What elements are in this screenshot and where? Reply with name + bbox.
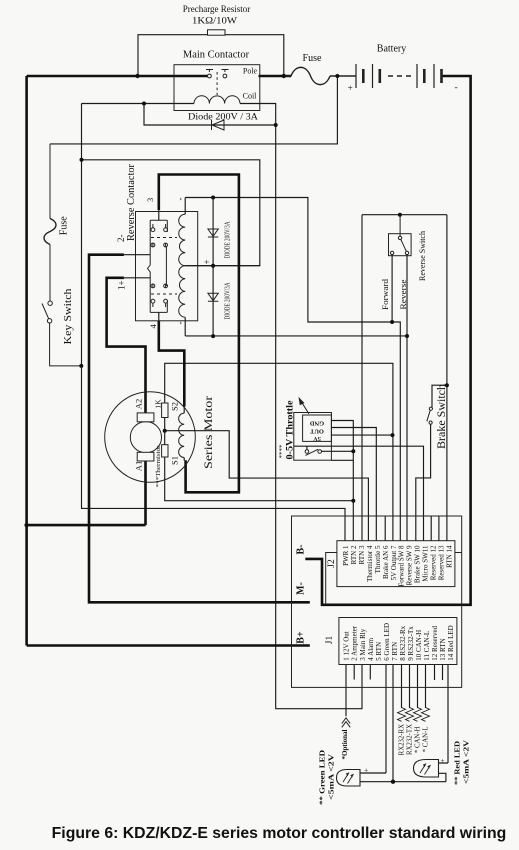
svg-text:OUT: OUT [309,427,324,434]
svg-text:8 RS232-Rx: 8 RS232-Rx [399,625,407,660]
svg-text:4 Alarm: 4 Alarm [367,637,375,660]
svg-text:14 Red LED: 14 Red LED [447,625,455,660]
svg-text:Figure 6: KDZ/KDZ-E series mot: Figure 6: KDZ/KDZ-E series motor control… [52,825,507,842]
svg-text:Main Contactor: Main Contactor [183,50,250,61]
svg-text:Thermistor 4: Thermistor 4 [366,545,374,582]
svg-text:12 Reserved: 12 Reserved [431,625,439,660]
svg-text:Brake AN 6: Brake AN 6 [382,545,390,579]
svg-text:RTN 14: RTN 14 [446,545,454,568]
svg-text:J1: J1 [325,636,335,645]
svg-text:GND: GND [310,419,325,426]
svg-text:*Optional: *Optional [341,729,349,759]
svg-text:RX232-RX: RX232-RX [399,724,406,755]
svg-text:9 RS232-Tx: 9 RS232-Tx [407,626,415,661]
svg-text:-: - [455,83,458,93]
svg-text:Fuse: Fuse [59,216,70,235]
svg-text:RTN 2: RTN 2 [350,545,358,564]
svg-text:7 RTN: 7 RTN [391,642,399,661]
svg-text:* CAN-H: * CAN-H [415,726,422,753]
svg-text:13 RTN: 13 RTN [439,638,447,660]
svg-text:5V Output 7: 5V Output 7 [390,545,398,580]
svg-text:+: + [202,259,212,264]
svg-text:3: 3 [145,198,155,202]
svg-text:3 Main Rly: 3 Main Rly [359,628,367,660]
svg-text:Diode 200V / 3A: Diode 200V / 3A [188,112,259,122]
svg-text:Key Switch: Key Switch [62,288,74,345]
svg-text:Reverse SW 9: Reverse SW 9 [406,545,414,585]
svg-text:Reserved 12: Reserved 12 [430,545,438,580]
svg-text:Pole: Pole [243,67,258,76]
svg-text:Reverse: Reverse [399,279,408,310]
svg-text:A1: A1 [134,461,144,471]
svg-text:+: + [348,84,353,94]
svg-text:****: **** [278,444,286,459]
svg-text:RX232-TX: RX232-TX [407,724,414,755]
svg-text:-: - [175,198,185,201]
svg-text:+: + [364,766,368,775]
svg-text:Coil: Coil [243,92,258,101]
svg-text:5V: 5V [313,435,321,442]
svg-text:11 CAN-L: 11 CAN-L [423,631,431,661]
svg-text:B+: B+ [296,631,307,644]
svg-text:5 RTN: 5 RTN [375,642,383,661]
svg-text:4: 4 [148,324,158,329]
svg-text:Reverse Switch: Reverse Switch [418,231,427,281]
svg-text:B-: B- [296,545,307,555]
svg-text:2-: 2- [116,235,126,243]
svg-text:PWR 1: PWR 1 [342,545,350,566]
svg-text:2 Ampmeter: 2 Ampmeter [351,625,359,660]
svg-text:Fuse: Fuse [303,53,322,64]
svg-text:Battery: Battery [377,44,406,55]
svg-text:Series Motor: Series Motor [201,396,215,469]
svg-text:<5mA <2V: <5mA <2V [327,753,336,800]
svg-text:6 Green LED: 6 Green LED [383,623,391,661]
svg-text:0-5V Throttle: 0-5V Throttle [285,401,295,460]
svg-text:***Thermistor: ***Thermistor [155,445,162,488]
svg-text:* CAN-L: * CAN-L [423,727,430,753]
svg-text:S2: S2 [169,402,179,411]
svg-text:Forward: Forward [381,279,390,310]
svg-text:J2: J2 [327,559,337,568]
svg-text:Reverse Contactor: Reverse Contactor [125,164,137,241]
svg-text:1KΩ/10W: 1KΩ/10W [192,16,238,26]
svg-text:** Red LED: ** Red LED [453,740,462,785]
svg-text:Micro SW11: Micro SW11 [422,545,430,582]
svg-text:S1: S1 [169,456,179,465]
svg-text:Precharge Resistor: Precharge Resistor [183,4,251,14]
svg-text:RTN 3: RTN 3 [358,545,366,564]
svg-text:<5mA <2V: <5mA <2V [462,739,471,784]
svg-text:1K: 1K [153,399,162,409]
svg-text:Brake SW 10: Brake SW 10 [414,545,422,583]
svg-text:Throttle 5: Throttle 5 [374,545,382,573]
svg-text:Reserved 13: Reserved 13 [438,545,446,580]
svg-text:Forward SW 8: Forward SW 8 [398,545,406,587]
svg-text:1+: 1+ [117,280,127,290]
svg-text:+: + [441,756,445,765]
svg-text:-: - [175,322,185,325]
svg-text:10 CAN-H: 10 CAN-H [415,630,423,661]
svg-text:DIODE 200V/3A: DIODE 200V/3A [225,282,232,319]
svg-text:DIODE 200V/3A: DIODE 200V/3A [225,221,232,258]
svg-text:A2: A2 [134,399,144,409]
svg-text:** Green LED: ** Green LED [318,749,327,805]
svg-text:M-: M- [296,582,307,595]
svg-text:Brake Switch: Brake Switch [436,384,448,449]
svg-text:1 12V Out: 1 12V Out [343,631,351,660]
